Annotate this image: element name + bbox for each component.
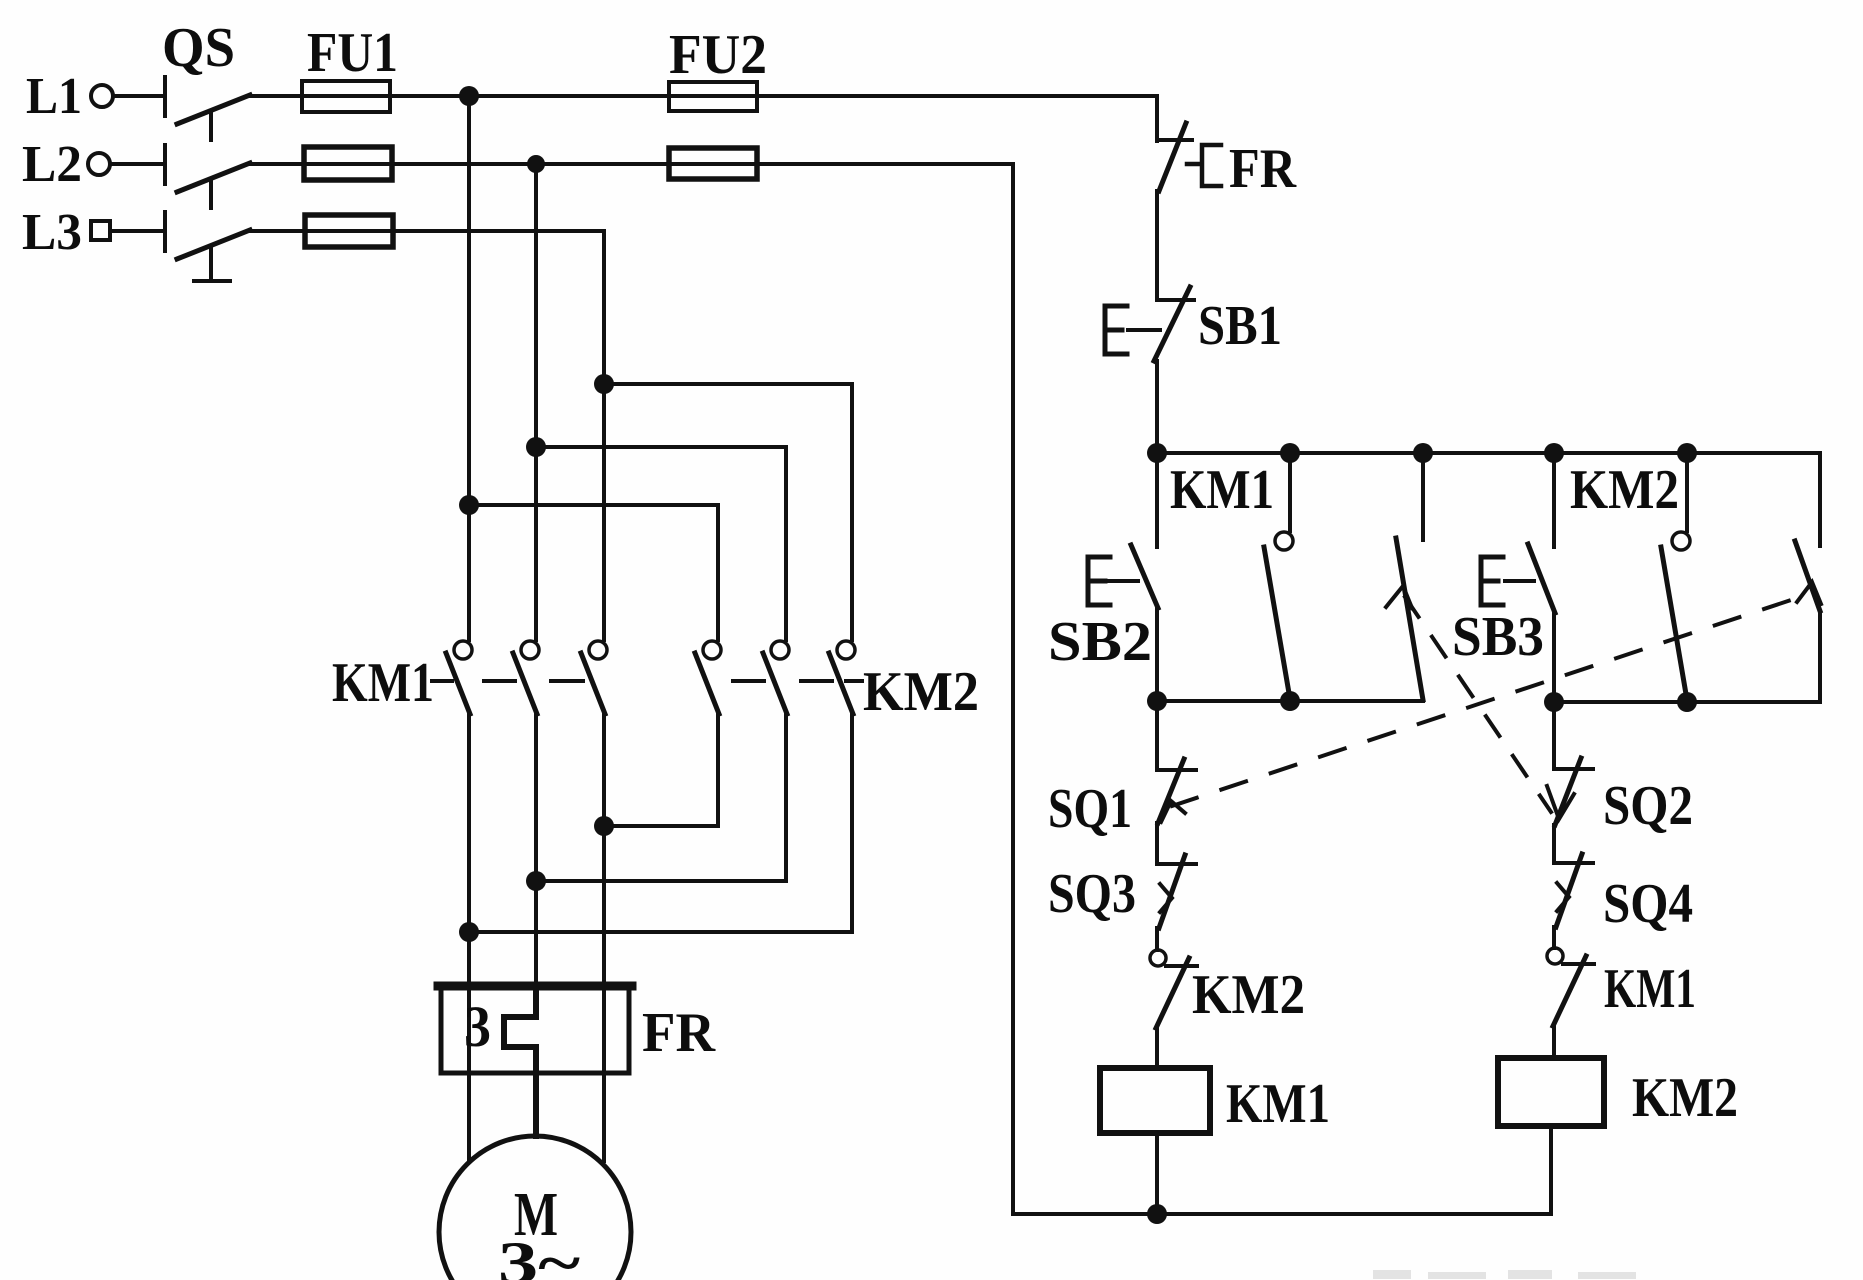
node L1-A junction xyxy=(459,86,479,106)
wire bottom-right bus xyxy=(1554,700,1820,704)
wire bottom bus xyxy=(1013,1212,1551,1216)
terminal L2 xyxy=(88,153,110,175)
wire control feed down xyxy=(1155,96,1159,141)
thermal relay FR heater element xyxy=(504,986,536,1136)
contactor KM2 main contact 2 xyxy=(763,641,789,714)
node L2-B junction xyxy=(527,155,545,173)
wire SQ3 to KM2 interlock xyxy=(1155,928,1159,950)
wire SQ4 to KM1 interlock xyxy=(1552,927,1556,948)
contactor KM2 linkage dashes xyxy=(733,679,862,683)
svg-text:KM2: KM2 xyxy=(1192,964,1305,1026)
svg-text:3: 3 xyxy=(464,994,491,1059)
wire SB1 to top bus xyxy=(1155,361,1159,453)
wire SQ1 to SQ3 xyxy=(1155,823,1159,864)
wire phase A vertical upper xyxy=(467,96,471,640)
svg-text:FR: FR xyxy=(1229,138,1296,200)
svg-text:KM1: KM1 xyxy=(1170,459,1274,521)
switch QS pole 2 xyxy=(165,145,250,192)
contactor KM2 aux contact (self hold) xyxy=(1661,453,1690,700)
fuse FU2 pole 1 xyxy=(669,82,757,111)
wire FR to SB1 xyxy=(1155,191,1159,300)
wire phase C vertical lower xyxy=(602,714,606,1161)
coil KM1 xyxy=(1100,1068,1210,1133)
pushbutton SB1 (NC stop) xyxy=(1105,287,1194,361)
terminal L3 xyxy=(91,221,110,240)
wire tap C to KM2 pole 3 xyxy=(604,384,852,640)
limit switch SQ3 NC contact xyxy=(1157,855,1196,928)
svg-text:SQ4: SQ4 xyxy=(1603,873,1693,935)
node bottom bus junction xyxy=(1147,1204,1167,1224)
wire coil KM2 to bottom bus xyxy=(1549,1126,1553,1214)
svg-text:SB3: SB3 xyxy=(1452,606,1544,668)
wire KM2 pole2 return to phase B xyxy=(536,714,786,881)
limit switch SQ1 NC contact xyxy=(1157,701,1196,823)
wire interlock to coil KM2 xyxy=(1552,1026,1556,1058)
wire L1 terminal to QS xyxy=(113,94,165,98)
contactor KM1 main contact 2 xyxy=(513,641,539,714)
limit switch SQ1 NO contact (branch 6) xyxy=(1795,541,1821,702)
mechanical link dashed SQ1 xyxy=(1172,597,1800,806)
svg-text:KM2: KM2 xyxy=(1632,1067,1738,1129)
wire left return from FU2 xyxy=(1011,164,1015,1214)
node bottom-right dot 2 xyxy=(1677,692,1697,712)
svg-text:L2: L2 xyxy=(22,136,82,193)
wire phase A vertical lower xyxy=(467,714,471,1161)
node bottom-right dot 1 xyxy=(1544,692,1564,712)
coil KM2 xyxy=(1498,1058,1604,1126)
wire control top bus xyxy=(1157,453,1820,546)
fuse FU2 pole 2 xyxy=(669,148,757,179)
svg-text:KM1: KM1 xyxy=(1226,1073,1330,1135)
contactor KM1 main contact 1 xyxy=(446,641,472,714)
node bus dot 5 xyxy=(1677,443,1697,463)
contactor KM1 interlock NC contact xyxy=(1547,948,1594,1026)
wire phase B vertical lower xyxy=(534,714,538,986)
wire tap B to KM2 pole 2 xyxy=(536,447,786,640)
svg-text:KM1: KM1 xyxy=(1604,958,1696,1020)
wire KM2 pole3 return to phase A xyxy=(469,714,852,932)
svg-text:FU2: FU2 xyxy=(669,24,767,86)
limit switch SQ4 NC contact xyxy=(1554,854,1593,927)
contactor KM2 interlock NC contact xyxy=(1150,950,1197,1028)
svg-text:L3: L3 xyxy=(22,204,82,261)
node return B junction xyxy=(526,871,546,891)
svg-text:KM2: KM2 xyxy=(1570,459,1679,521)
faint caption remnant xyxy=(1373,1270,1636,1279)
wire L2 terminal to QS xyxy=(110,162,165,166)
svg-text:L1: L1 xyxy=(26,68,82,125)
switch QS pole 1 xyxy=(165,77,250,124)
wire KM2 pole1 return to phase C xyxy=(604,714,718,826)
node return A junction xyxy=(459,922,479,942)
node bus dot 4 xyxy=(1544,443,1564,463)
terminal L1 xyxy=(91,85,113,107)
node bottom-left dot 2 xyxy=(1280,691,1300,711)
svg-text:QS: QS xyxy=(162,17,235,79)
node bus dot 3 xyxy=(1413,443,1433,463)
limit switch SQ2 NO contact (branch 3) xyxy=(1386,453,1423,700)
wire L3 terminal to QS xyxy=(110,229,165,233)
node bus dot 2 xyxy=(1280,443,1300,463)
contactor KM2 main contact 1 xyxy=(695,641,721,714)
svg-text:SQ2: SQ2 xyxy=(1603,775,1693,837)
svg-text:FU1: FU1 xyxy=(307,22,398,84)
wire phase C vertical upper xyxy=(602,231,606,640)
node return C junction xyxy=(594,816,614,836)
switch QS pole 3 xyxy=(165,212,250,259)
pushbutton SB3 (NO start rev) xyxy=(1481,453,1555,702)
motor M circle xyxy=(439,1136,631,1280)
svg-text:SQ1: SQ1 xyxy=(1048,778,1132,840)
thermal relay FR heater box xyxy=(438,985,632,1073)
contactor KM2 main contact 3 xyxy=(829,641,855,714)
wire bottom-left bus xyxy=(1157,699,1423,703)
node phase B tap xyxy=(526,437,546,457)
svg-text:FR: FR xyxy=(642,1002,716,1064)
fuse FU1 pole 3 xyxy=(305,215,393,247)
relay contact FR (NC) xyxy=(1157,123,1221,191)
contactor KM1 main contact 3 xyxy=(581,641,607,714)
fuse FU1 pole 1 xyxy=(302,81,390,112)
contactor KM1 aux contact (self hold) xyxy=(1264,453,1293,699)
node phase A tap xyxy=(459,495,479,515)
svg-text:3~: 3~ xyxy=(498,1230,580,1280)
node phase C tap xyxy=(594,374,614,394)
wire phase B vertical upper xyxy=(534,164,538,640)
contactor KM1 linkage dashes xyxy=(432,679,583,683)
node bottom-left dot 1 xyxy=(1147,691,1167,711)
svg-text:SB2: SB2 xyxy=(1048,611,1152,673)
wire phase L1 from QS through FU1,FU2 to control feed xyxy=(248,94,1157,98)
svg-text:SQ3: SQ3 xyxy=(1048,863,1136,925)
wire SQ2 to SQ4 xyxy=(1552,825,1556,863)
svg-text:SB1: SB1 xyxy=(1198,295,1282,357)
limit switch SQ2 NC contact xyxy=(1547,702,1593,825)
wire coil KM1 to bottom bus xyxy=(1155,1133,1159,1214)
switch QS mechanical linkage xyxy=(194,112,230,281)
mechanical link dashed SQ2 xyxy=(1405,597,1551,812)
wire phase L3 from QS to corner xyxy=(248,229,604,233)
wire phase L2 from QS through FU1,FU2 xyxy=(248,162,1013,166)
wire interlock to coil KM1 xyxy=(1155,1028,1159,1068)
fuse FU1 pole 2 xyxy=(304,147,392,180)
pushbutton SB2 (NO start fwd) xyxy=(1088,453,1158,701)
svg-text:KM2: KM2 xyxy=(863,661,979,723)
wire tap A to KM2 pole 1 xyxy=(469,505,718,640)
svg-text:KM1: KM1 xyxy=(332,652,434,714)
node bus dot 1 xyxy=(1147,443,1167,463)
